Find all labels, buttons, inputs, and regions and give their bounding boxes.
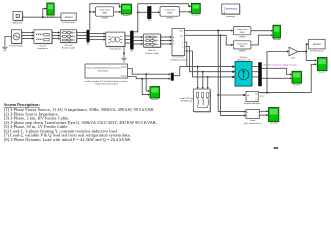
svg-text:abc: abc	[247, 95, 250, 97]
svg-text:Continuous: Continuous	[237, 42, 248, 45]
wire impedance to hv feeder c	[52, 38, 59, 40]
svg-text:Continuous: Continuous	[99, 9, 111, 12]
svg-text:Source: Source	[39, 44, 47, 47]
rms block CRMS3	[233, 27, 251, 35]
svg-text:|u| ∠u: |u| ∠u	[260, 95, 265, 98]
ground symbol G1	[2, 47, 7, 51]
wire branch up to scope6	[43, 9, 45, 18]
wire hv feeder to B1 a	[77, 32, 87, 34]
svg-text:To Workspace: To Workspace	[62, 21, 77, 24]
node junction J5	[220, 34, 222, 36]
wire into CRMS1	[90, 11, 94, 13]
power measurement block	[246, 110, 260, 119]
svg-text:To Workspace1: To Workspace1	[310, 50, 325, 52]
wire seq out	[258, 92, 311, 94]
wire top line to scope3	[138, 4, 190, 6]
node junction J1	[42, 16, 44, 18]
svg-text:refrigeration system data: refrigeration system data	[95, 83, 119, 86]
scope Scope8	[269, 108, 279, 125]
wire drop C to load1	[207, 77, 209, 87]
wire gain to workspace1	[305, 44, 308, 51]
ground symbol G2	[121, 58, 126, 62]
rms block CRMS1	[96, 7, 114, 16]
load2 from-workspace block	[85, 64, 128, 78]
load1 RL load block	[193, 89, 211, 113]
svg-text:Load-2, variable P & Q load fe: Load-2, variable P & Q load fed from a r…	[84, 80, 127, 83]
3-phase power source block	[11, 30, 22, 44]
wire lv feeder to V-I measurement c	[160, 43, 170, 45]
scope Scope3	[191, 3, 200, 16]
svg-text:Impedance: Impedance	[37, 48, 49, 50]
svg-text:Signal1: Signal1	[121, 66, 127, 68]
svg-text:Multimeter: Multimeter	[13, 22, 23, 25]
wire B3 to CRMS2	[151, 11, 158, 13]
svg-text:V-I Measurement: V-I Measurement	[170, 58, 186, 61]
wire top line to scope2	[90, 4, 120, 7]
wire Iabc drop to power meter	[221, 35, 245, 115]
sequence analyzer block	[246, 91, 258, 101]
svg-text:Continuous: Continuous	[237, 28, 248, 31]
wire phase B elbow	[185, 47, 234, 72]
scope Scope6	[47, 3, 55, 18]
wire transformer to B2 a	[125, 35, 130, 37]
svg-text:b: b	[182, 47, 183, 49]
wire source to impedance c	[22, 38, 33, 40]
svg-text:Scope4: Scope4	[273, 39, 281, 41]
wire Vabc drop to power meter	[218, 31, 244, 112]
wire CRMS4 to scope4	[251, 35, 271, 45]
svg-text:∠u: ∠u	[255, 98, 258, 101]
wire dynload stub c	[252, 76, 258, 78]
svg-text:Transformer: Transformer	[109, 48, 121, 51]
to-workspace block simout	[61, 13, 76, 21]
wire load2 out2 to scope1	[142, 79, 148, 95]
bus bar B3	[147, 6, 151, 22]
scope Scope5	[292, 71, 302, 86]
svg-text:Scope5: Scope5	[293, 84, 301, 86]
svg-text:simout: simout	[65, 15, 73, 19]
svg-text:B1: B1	[87, 44, 89, 46]
wire dynload stub b	[252, 71, 258, 73]
svg-text:CRMS3: CRMS3	[239, 36, 246, 38]
wire load2 out1 to scope1	[146, 74, 148, 91]
wire multimeter to workspace	[22, 16, 61, 18]
svg-text:Feeder Cable: Feeder Cable	[145, 52, 159, 55]
three-phase V-I measurement block	[172, 28, 185, 55]
bus bar B5	[258, 62, 262, 86]
wire source to impedance b	[22, 35, 33, 37]
node junction J2	[89, 11, 91, 13]
svg-text:11kv HV: 11kv HV	[64, 45, 73, 47]
wire source to impedance a	[22, 32, 33, 34]
svg-text:Continuous: Continuous	[164, 9, 176, 12]
svg-text:RMS: RMS	[240, 46, 245, 48]
node junction J4	[217, 30, 219, 32]
svg-text:Sequence Analyzer: Sequence Analyzer	[244, 102, 261, 105]
bus bar B2	[130, 31, 134, 53]
wire B1 to transformer c	[90, 39, 105, 41]
gain block	[289, 47, 298, 56]
svg-text:Feeder Cable: Feeder Cable	[62, 47, 76, 50]
wire B1 to transformer b	[90, 36, 105, 38]
node node seq input	[243, 94, 245, 96]
svg-text:Signal2: Signal2	[121, 76, 127, 78]
svg-text:Scope6: Scope6	[47, 16, 55, 18]
wire tap from B2 up	[134, 4, 138, 32]
wire to ground1	[5, 37, 11, 47]
scope Scope1	[150, 87, 160, 102]
svg-text:B2: B2	[131, 51, 133, 53]
node tap B load1	[202, 71, 204, 73]
wire impedance to hv feeder a	[52, 32, 59, 34]
svg-text:Power Source: Power Source	[10, 44, 25, 47]
wire seq to scope7	[311, 64, 315, 92]
rms block CRMS2	[160, 7, 179, 17]
wire Vabc signal	[185, 30, 232, 32]
svg-text:Scope3: Scope3	[192, 15, 200, 17]
wire B5 to scope5 in1	[262, 68, 291, 74]
svg-text:Three-Phase: Three-Phase	[172, 56, 185, 59]
wire gain to scope7	[306, 52, 315, 61]
system description text block	[4, 103, 157, 142]
svg-text:Scope1: Scope1	[151, 99, 159, 101]
svg-text:Dynamic Load: Dynamic Load	[237, 60, 251, 62]
wire Iabc signal	[185, 35, 232, 45]
wire drop A to load1	[197, 67, 199, 88]
lv feeder cable block	[143, 34, 161, 48]
wire power Q to scope8	[260, 114, 267, 116]
svg-text:Scope8: Scope8	[270, 123, 278, 125]
node junction J6	[217, 94, 219, 96]
scope Scope7	[317, 58, 327, 74]
wire B5 to scope5 in2	[262, 77, 291, 79]
wire tap from B1 up	[89, 4, 91, 30]
wire hv feeder to B1 c	[77, 38, 87, 40]
wire gain out	[298, 51, 306, 53]
wire drop B to load1	[202, 72, 204, 88]
svg-text:simout: simout	[313, 42, 321, 46]
rms block CRMS4	[233, 41, 251, 49]
node neutral node	[123, 52, 125, 54]
wire B4 tap to distribution	[174, 67, 187, 76]
3-phase dynamic load block	[233, 62, 252, 87]
svg-text:CRMS4: CRMS4	[239, 50, 246, 52]
svg-text:simphase1201003000kVaRefrDataT: simphase1201003000kVaRefrDataTd_(Pavg	[86, 67, 121, 70]
svg-text:<Positive-sequence voltage V1: <Positive-sequence voltage V1 (pu)>	[263, 63, 298, 66]
node junction J10	[305, 51, 307, 53]
svg-text:Iabc: Iabc	[180, 35, 183, 37]
node tap C load1	[207, 76, 209, 78]
svg-text:(3ph, Instantaneous): (3ph, Instantaneous)	[244, 122, 262, 125]
wire dynload stub a	[252, 66, 258, 68]
wire CRMS1 to scope2	[114, 11, 120, 13]
page artifact mark	[274, 147, 279, 149]
bus bar B4	[171, 73, 174, 81]
node junction J9	[266, 92, 268, 94]
svg-text:Continuous: Continuous	[224, 7, 238, 11]
wire power P to scope8	[260, 110, 267, 112]
wire phase A elbow	[185, 42, 234, 67]
wire lv feeder to V-I measurement b	[160, 40, 170, 42]
wire impedance to hv feeder b	[52, 35, 59, 37]
svg-text:powergui: powergui	[226, 15, 235, 18]
wire lv feeder to V-I measurement a	[160, 36, 170, 38]
wire load2 out1	[128, 69, 170, 75]
node tap A load1	[197, 66, 199, 68]
svg-text:Power: Power	[250, 119, 256, 122]
hv feeder cable block	[60, 30, 77, 43]
bus bar B1	[87, 30, 90, 46]
svg-text:Mixed Wave): Mixed Wave)	[98, 71, 109, 73]
wire CRMS3 to scope4	[251, 30, 271, 32]
wire transformer to B2 b	[125, 39, 130, 41]
wire CRMS2 to scope3	[179, 11, 189, 13]
svg-text:Vabc: Vabc	[179, 31, 183, 33]
wire B1 to transformer a	[90, 33, 105, 35]
wire into bus bar B3	[138, 11, 147, 13]
svg-text:RMS: RMS	[102, 13, 107, 15]
wire transformer to B2 c	[125, 42, 130, 44]
svg-text:Load1 3-Phase: Load1 3-Phase	[180, 98, 194, 100]
node junction J3	[137, 11, 139, 13]
wire hv feeder to B1 b	[77, 35, 87, 37]
multimeter block	[13, 12, 23, 22]
to-workspace1 block simout	[309, 39, 326, 49]
node tap B dyn	[232, 71, 234, 73]
wire phase C elbow	[185, 51, 234, 77]
svg-text:Scope7: Scope7	[318, 72, 326, 74]
scope Scope2	[121, 4, 131, 17]
wire B2 to lv feeder a	[134, 36, 142, 38]
node junction J8	[141, 78, 143, 80]
wire B2 to lv feeder c	[134, 43, 142, 45]
wire B2 to lv feeder b	[134, 40, 142, 42]
node tap A dyn	[232, 66, 234, 68]
wire seq to gain	[267, 52, 287, 93]
svg-text:400v LV: 400v LV	[148, 50, 156, 52]
svg-text:CRMS1: CRMS1	[101, 18, 109, 20]
svg-text:RMS: RMS	[240, 32, 245, 34]
node tap C dyn	[232, 76, 234, 78]
source impedance block	[34, 30, 53, 44]
svg-text:a: a	[182, 43, 183, 45]
wire load2 out2	[128, 77, 170, 79]
svg-text:B3: B3	[148, 20, 150, 22]
transformer block	[106, 32, 126, 47]
wire branch to sequence analyzer	[218, 94, 244, 96]
svg-text:Scope2: Scope2	[123, 15, 131, 17]
svg-text:(8) 3-Phase Dynamic Load with: (8) 3-Phase Dynamic Load with initial P …	[4, 137, 131, 142]
node junction J7	[145, 73, 147, 75]
svg-text:3-Phase: 3-Phase	[240, 57, 249, 59]
svg-text:CRMS2: CRMS2	[166, 17, 174, 19]
scope Scope4	[273, 25, 281, 41]
powergui block	[222, 4, 241, 15]
transformer neutral wire	[123, 47, 125, 58]
svg-text:30 kVA Load: 30 kVA Load	[181, 100, 192, 103]
svg-text:RMS: RMS	[167, 13, 172, 15]
